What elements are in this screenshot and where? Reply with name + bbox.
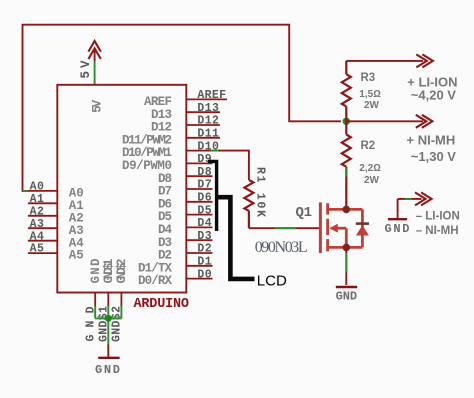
node junction green GND — [105, 315, 112, 322]
svg-text:R3: R3 — [361, 72, 376, 84]
wire source to ground — [345, 247, 347, 285]
svg-text:~1,30 V: ~1,30 V — [411, 149, 457, 164]
pin D10/PWM1 — [122, 140, 220, 160]
svg-text:GND: GND — [385, 222, 410, 236]
arrow - LI-ION / - NI-MH output — [415, 192, 432, 205]
svg-text:A3: A3 — [30, 218, 44, 231]
svg-text:GND$1: GND$1 — [102, 259, 116, 284]
pin D12 — [151, 115, 220, 135]
source connection — [329, 246, 362, 249]
svg-text:D9: D9 — [197, 153, 211, 166]
thick black bracket pins D9-D4 — [208, 161, 217, 231]
wire green segment on D10 net — [210, 150, 218, 152]
svg-text:2,2Ω: 2,2Ω — [359, 163, 381, 174]
5V supply arrow — [88, 41, 100, 59]
wire green segment on gate net — [275, 227, 296, 229]
pin A5 — [28, 243, 84, 263]
pin A0 — [28, 181, 84, 201]
svg-text:A0: A0 — [30, 181, 44, 194]
wire R1 bottom to Q1 gate — [249, 227, 319, 229]
svg-text:A5: A5 — [69, 249, 84, 263]
pin D13 — [151, 102, 220, 122]
pin D3 — [158, 230, 213, 250]
wire green segment right gnd — [405, 198, 412, 200]
pin A3 — [28, 218, 84, 238]
svg-text:GND: GND — [89, 258, 103, 283]
svg-text:A1: A1 — [30, 193, 44, 206]
pin D5 — [158, 204, 213, 224]
resistor R2 — [342, 121, 351, 209]
arrow + NI-MH output — [416, 115, 433, 128]
svg-text:D4: D4 — [197, 217, 211, 230]
ground symbol below Arduino — [107, 344, 109, 357]
wire green segment at A0 junction — [23, 190, 28, 192]
pin GND (bottom, stub) — [94, 293, 96, 307]
svg-text:1,5Ω: 1,5Ω — [359, 89, 381, 100]
pin A1 — [28, 193, 84, 213]
svg-text:+ NI-MH: + NI-MH — [407, 133, 456, 148]
pin AREF — [144, 89, 227, 109]
wire 5V arrow tail — [94, 48, 96, 62]
svg-text:LCD: LCD — [257, 273, 287, 290]
thick black lead to LCD — [217, 197, 255, 279]
svg-text:D3: D3 — [197, 230, 211, 243]
svg-text:Q1: Q1 — [296, 205, 313, 221]
resistor R3 — [342, 61, 351, 121]
channel bar bottom — [326, 239, 329, 251]
svg-text:2W: 2W — [364, 100, 380, 111]
channel bar top — [326, 203, 329, 214]
svg-text:~4,20 V: ~4,20 V — [411, 88, 457, 103]
node junction (green dot) R2/R3/NI-MH — [343, 118, 350, 125]
wire 5V net (green) into Arduino — [94, 61, 96, 85]
wire green segment source-gnd — [345, 253, 347, 273]
svg-text:D7: D7 — [197, 179, 211, 192]
transistor Q1 MOSFET — [320, 202, 362, 253]
pin D1/TX — [138, 256, 213, 276]
pin GND$1 (bottom, stub) — [107, 293, 109, 307]
svg-text:5V: 5V — [91, 99, 105, 112]
svg-text:GND: GND — [336, 289, 358, 303]
svg-text:2W: 2W — [364, 175, 380, 186]
svg-text:D1: D1 — [197, 256, 211, 269]
pin D6 — [158, 192, 213, 212]
pin D2 — [158, 243, 213, 263]
pin A4 — [28, 230, 84, 250]
wire green GND net verticals — [95, 306, 121, 344]
arrow + LI-ION output — [416, 54, 433, 67]
ground symbol right (battery minus) — [388, 199, 407, 219]
wire R3 top to LI-ION arrow — [346, 60, 423, 62]
svg-text:D13: D13 — [197, 102, 219, 115]
wire green segment below R2 — [345, 168, 347, 177]
wire junction to NI-MH arrow — [346, 120, 423, 122]
Arduino box — [57, 85, 186, 293]
svg-text:R2: R2 — [361, 140, 376, 152]
svg-text:GND$2: GND$2 — [115, 259, 129, 284]
svg-text:A2: A2 — [30, 205, 44, 218]
svg-text:– LI-ION: – LI-ION — [416, 211, 460, 223]
ground symbol below Q1 — [336, 286, 357, 288]
pin D0/RX — [138, 268, 213, 288]
channel bar middle — [326, 219, 329, 235]
body arrow head — [329, 224, 338, 233]
svg-text:D6: D6 — [197, 192, 211, 205]
pin D9/PWM0 — [122, 153, 213, 173]
svg-text:D5: D5 — [197, 204, 211, 217]
svg-text:D12: D12 — [197, 115, 219, 128]
svg-text:D8: D8 — [197, 166, 211, 179]
resistor R1 — [244, 180, 253, 228]
svg-text:D2: D2 — [197, 243, 211, 256]
svg-text:AREF: AREF — [197, 89, 226, 102]
diode cathode bar — [356, 222, 369, 225]
body to source vertical — [345, 228, 348, 247]
pin D8 — [158, 166, 213, 186]
diode triangle — [356, 225, 369, 235]
pin D11/PWM2 — [122, 128, 220, 148]
svg-text:D0/RX: D0/RX — [138, 274, 172, 288]
body diode branch vertical — [361, 209, 364, 247]
wire right gnd to arrow — [398, 198, 422, 200]
svg-text:D11: D11 — [197, 128, 219, 141]
body arrow line — [335, 227, 346, 230]
svg-text:A4: A4 — [30, 230, 44, 243]
wire top-left from A0 up and across to R2/R3 junction column — [23, 25, 342, 191]
svg-text:A5: A5 — [30, 243, 44, 256]
svg-text:ARDUINO: ARDUINO — [134, 297, 190, 312]
drain connection — [329, 208, 362, 211]
svg-text:D0: D0 — [197, 268, 211, 281]
wire D10 to R1 top — [219, 151, 249, 180]
svg-text:GND: GND — [95, 363, 120, 377]
node source junction dot — [343, 244, 351, 252]
node drain junction dot — [343, 206, 351, 214]
gate bar — [319, 202, 322, 253]
svg-text:– NI-MH: – NI-MH — [416, 225, 459, 237]
pin A2 — [28, 205, 84, 225]
pin D7 — [158, 179, 213, 199]
pin GND$2 (bottom, stub) — [120, 293, 122, 307]
svg-text:090N03L: 090N03L — [255, 239, 308, 256]
pin D4 — [158, 217, 213, 237]
